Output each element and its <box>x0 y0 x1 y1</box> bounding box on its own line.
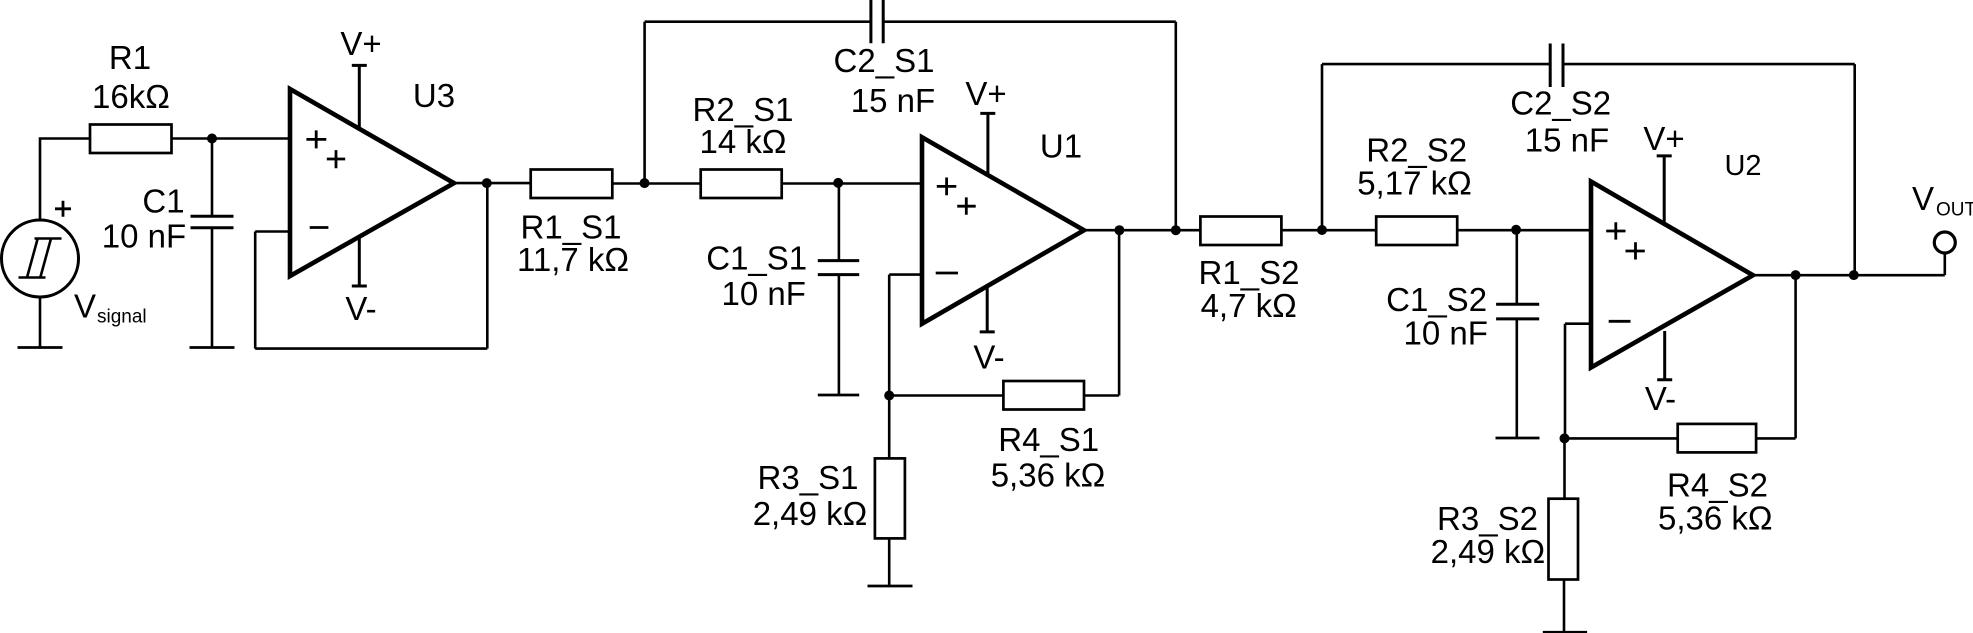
wire R3_S1 to ground <box>888 538 891 586</box>
svg-text:V+: V+ <box>965 75 1006 112</box>
resistor R2_S2 <box>1376 217 1457 246</box>
wire node D to R3_S1 <box>888 396 891 459</box>
U2 V- pin <box>1657 331 1672 380</box>
svg-text:C1_S2: C1_S2 <box>1386 281 1487 318</box>
svg-text:R1: R1 <box>109 39 151 76</box>
op-amp U1 <box>922 137 1084 324</box>
U1 output junction dot <box>1114 225 1124 235</box>
svg-text:OUT: OUT <box>1936 200 1973 221</box>
node G junction dot <box>1560 433 1570 443</box>
svg-text:5,36 kΩ: 5,36 kΩ <box>991 457 1106 494</box>
op-amp U3 <box>290 89 454 276</box>
wire riser to C2_S2 rail <box>1321 64 1324 230</box>
resistor R1 <box>90 125 172 154</box>
capacitor C1 <box>191 139 234 348</box>
source V_signal circle <box>2 220 79 297</box>
capacitor C2_S2 <box>1550 44 1563 88</box>
resistor R3_S2 <box>1549 499 1579 580</box>
svg-text:R3_S2: R3_S2 <box>1437 500 1538 537</box>
wire R1_S2 to R2_S2 <box>1281 229 1376 232</box>
svg-text:5,17 kΩ: 5,17 kΩ <box>1357 165 1472 202</box>
U3 output junction dot <box>482 178 492 188</box>
wire source bottom to ground <box>39 297 42 348</box>
U1 V- pin <box>980 286 995 332</box>
op-amp U2 <box>1591 182 1753 368</box>
wire node G to R4_S2 <box>1565 437 1678 440</box>
svg-text:C2_S2: C2_S2 <box>1510 85 1611 122</box>
svg-text:V+: V+ <box>340 25 381 62</box>
resistor R1_S1 <box>531 170 613 199</box>
resistor R1_S2 <box>1200 217 1281 246</box>
source plus polarity sign <box>55 201 71 217</box>
U1 V+ pin <box>980 113 995 175</box>
svg-text:5,36 kΩ: 5,36 kΩ <box>1658 500 1773 537</box>
U2 minus input mark <box>1609 320 1631 323</box>
wire top rail stage 1 <box>645 22 1176 231</box>
svg-text:R1_S1: R1_S1 <box>521 209 622 246</box>
rail junction dot (stage2) <box>1849 270 1859 280</box>
node D junction dot <box>884 391 894 401</box>
svg-text:R4_S2: R4_S2 <box>1667 467 1768 504</box>
svg-text:15 nF: 15 nF <box>851 82 935 119</box>
node C junction dot <box>833 178 843 188</box>
ground (C1_S1) <box>818 394 859 397</box>
capacitor C1_S2 <box>1496 230 1539 438</box>
svg-text:V-: V- <box>1645 380 1676 417</box>
svg-text:10 nF: 10 nF <box>102 218 186 255</box>
label V_signal <box>74 288 147 328</box>
resistor R4_S1 <box>1003 381 1084 410</box>
wire top rail stage 2 <box>1322 64 1855 275</box>
svg-text:V-: V- <box>345 290 376 327</box>
wire R4_S1 to U1 output <box>1084 230 1119 395</box>
svg-text:15 nF: 15 nF <box>1525 122 1609 159</box>
U1 minus input mark <box>936 272 958 275</box>
wire U1 inverting input <box>889 275 922 396</box>
svg-text:2,49 kΩ: 2,49 kΩ <box>1431 533 1546 570</box>
svg-text:11,7 kΩ: 11,7 kΩ <box>517 241 629 278</box>
svg-text:signal: signal <box>97 307 147 328</box>
resistor R2_S1 <box>701 170 782 199</box>
wire U1 output to R1_S2 <box>1084 229 1200 232</box>
U2 V+ pin <box>1657 156 1672 222</box>
svg-text:R3_S1: R3_S1 <box>758 459 859 496</box>
wire R1_S1 to R2_S1 <box>612 182 700 185</box>
ground (C1_S2) <box>1496 437 1540 440</box>
wire U3 output <box>454 182 531 185</box>
svg-text:V: V <box>74 288 96 325</box>
svg-text:U3: U3 <box>413 77 455 114</box>
svg-text:V: V <box>1912 180 1934 217</box>
svg-text:R1_S2: R1_S2 <box>1199 254 1300 291</box>
node B junction dot <box>640 178 650 188</box>
wire node D to R4_S1 <box>889 394 1003 397</box>
ground (C1) <box>190 346 235 349</box>
svg-text:C2_S1: C2_S1 <box>834 42 935 79</box>
U3 V- pin <box>352 237 367 286</box>
svg-text:16kΩ: 16kΩ <box>92 78 170 115</box>
ground (R3_S1) <box>868 585 913 588</box>
label V_OUT <box>1912 180 1973 221</box>
wire source top to R1 <box>39 139 90 221</box>
V_OUT terminal stub <box>1944 254 1947 276</box>
node E junction dot <box>1317 225 1327 235</box>
U2 output junction dot <box>1791 270 1801 280</box>
svg-text:10 nF: 10 nF <box>1404 315 1488 352</box>
svg-text:U2: U2 <box>1724 150 1761 182</box>
U3 V+ pin <box>352 65 367 129</box>
capacitor C1_S1 <box>818 184 859 396</box>
wire U2 output to V_OUT <box>1753 274 1945 277</box>
wire R2_S1 to U1 input <box>782 182 922 185</box>
wire U2 inverting input <box>1565 324 1591 439</box>
svg-text:U1: U1 <box>1040 128 1082 165</box>
wire R4_S2 to U2 output <box>1756 275 1796 438</box>
V_OUT terminal circle <box>1934 232 1955 253</box>
U3 plus input marks <box>306 130 345 168</box>
svg-text:14 kΩ: 14 kΩ <box>699 123 786 160</box>
resistor R3_S1 <box>875 458 905 538</box>
svg-text:2,49 kΩ: 2,49 kΩ <box>753 495 868 532</box>
capacitor C2_S1 <box>871 0 883 43</box>
wire R3_S2 to ground <box>1563 580 1566 633</box>
wire node G to R3_S2 <box>1563 438 1566 498</box>
ground (source) <box>18 346 63 349</box>
svg-text:V+: V+ <box>1643 120 1684 157</box>
svg-text:C1: C1 <box>142 183 184 220</box>
svg-text:4,7 kΩ: 4,7 kΩ <box>1201 287 1297 324</box>
node A junction dot <box>207 134 217 144</box>
ground (R3_S2) <box>1543 631 1587 633</box>
U3 feedback wire <box>255 183 487 349</box>
node F junction dot <box>1511 225 1521 235</box>
U3 minus input mark <box>310 226 329 229</box>
wire R1 to U3 input <box>172 137 291 140</box>
svg-text:R2_S2: R2_S2 <box>1366 132 1467 169</box>
resistor R4_S2 <box>1678 424 1756 453</box>
wire riser to C2_S1 rail <box>643 22 646 184</box>
U1 plus input marks <box>937 178 976 215</box>
wire R2_S2 to U2 input <box>1457 229 1591 232</box>
svg-text:V-: V- <box>973 339 1004 376</box>
svg-text:C1_S1: C1_S1 <box>706 240 807 277</box>
rail junction dot (stage1) <box>1171 225 1181 235</box>
svg-text:10 nF: 10 nF <box>722 275 806 312</box>
U2 plus input marks <box>1606 222 1645 259</box>
svg-text:R4_S1: R4_S1 <box>998 421 1099 458</box>
